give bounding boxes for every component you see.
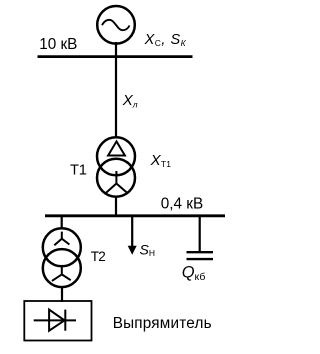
svg-text:SН: SН — [140, 242, 155, 259]
T1 wye winding — [106, 171, 127, 193]
svg-text:Qкб: Qкб — [182, 264, 206, 283]
transformer T1 top circle — [97, 137, 135, 175]
T2 bottom wye winding — [52, 266, 71, 281]
svg-text:T2: T2 — [91, 249, 105, 264]
T2 top wye winding — [54, 232, 69, 246]
sine wave inside source — [102, 20, 130, 30]
bus 10kV — [38, 55, 193, 58]
svg-text:0,4 кВ: 0,4 кВ — [161, 195, 203, 212]
svg-text:Xл: Xл — [122, 92, 138, 110]
rectifier box — [24, 301, 91, 341]
load arrow SN — [131, 216, 133, 247]
svg-text:T1: T1 — [70, 162, 87, 178]
capacitor QKB bottom plate — [187, 258, 214, 260]
wire T1 to bus2 — [115, 196, 117, 216]
wire bus2 to T2 — [61, 216, 63, 229]
wire bus1 to T1 — [115, 57, 117, 138]
transformer T1 bottom circle — [97, 159, 135, 197]
bus 0.4kV — [45, 214, 225, 217]
AC source G1 — [97, 6, 135, 44]
svg-text:XС, SК: XС, SК — [144, 32, 187, 48]
svg-text:10 кВ: 10 кВ — [39, 36, 77, 53]
capacitor bank branch wire — [199, 216, 201, 252]
T1 delta winding — [108, 141, 125, 155]
transformer T2 bottom circle — [43, 249, 81, 287]
diode cathode bar — [64, 310, 66, 331]
wire T2 to rectifier box — [61, 287, 63, 302]
wire source to bus1 — [115, 42, 117, 58]
transformer T2 top circle — [43, 228, 81, 266]
svg-text:Выпрямитель: Выпрямитель — [113, 315, 212, 332]
capacitor QKB top plate — [187, 251, 214, 253]
diode horizontal line — [34, 319, 76, 321]
svg-text:XТ1: XТ1 — [150, 152, 172, 169]
diode triangle — [49, 310, 64, 331]
